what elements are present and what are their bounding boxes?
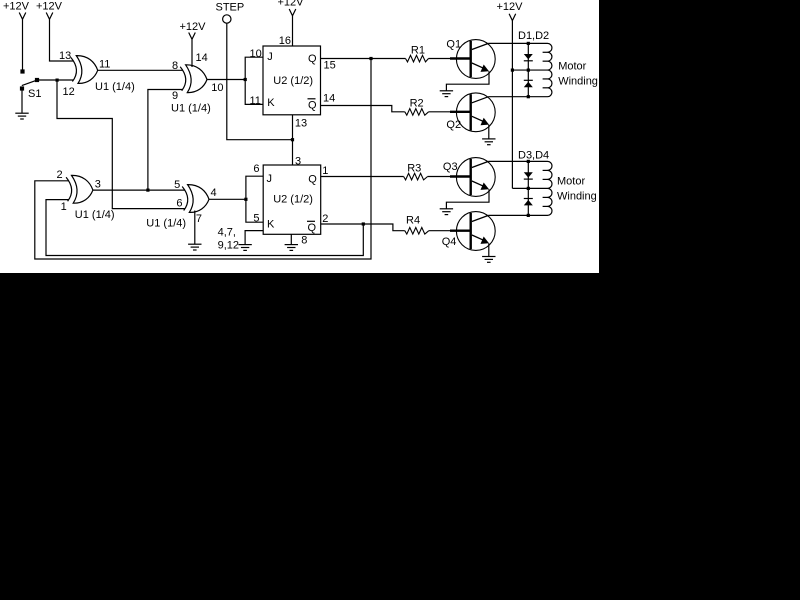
power +12V supply 5 (motor rail) [497,1,524,21]
svg-text:U1 (1/4): U1 (1/4) [146,218,186,230]
wire gate4 pin 7 to ground [194,211,196,245]
svg-text:3: 3 [95,178,101,190]
wire gate2 output to FF1 J/K tie [207,79,245,81]
svg-text:2: 2 [57,169,63,181]
wire gate2 pin9 from below [148,90,183,190]
diode D2 [524,80,533,87]
wire winding 2 center tap [512,187,547,189]
wire FF2 pins 4,7,9,12 stub to ground [245,231,263,245]
wire +12V to FF1 pin 16 [292,16,294,46]
svg-text:3: 3 [295,156,301,168]
wire S1 to ground [21,91,23,113]
svg-text:+12V: +12V [278,0,305,9]
svg-text:Motor: Motor [557,175,585,187]
power +12V supply 3 (gate2 pin14) [180,21,207,39]
svg-text:+12V: +12V [180,21,207,33]
svg-text:10: 10 [250,48,262,60]
wire Q4 emitter to ground [488,243,490,256]
wire winding 1 center tap [512,69,547,71]
node junction top D3 [527,160,530,163]
wire FF2 pin 8 to ground [290,234,292,244]
svg-text:D3,D4: D3,D4 [518,150,549,162]
wire diode chain D1 D2 [527,43,529,96]
ground FF2 pin8 [285,245,298,251]
wire Q1 collector to winding [488,42,547,44]
svg-text:R3: R3 [407,162,421,174]
svg-text:D1,D2: D1,D2 [518,30,549,42]
flip-flop U2 (1/2) first [263,46,321,115]
transistor Q3 [443,158,495,197]
xor gate U1 (1/4) third (pins 2,1 -> 3) [66,175,93,203]
switch S1 [20,69,42,100]
resistor R1 [406,45,429,62]
STEP input terminal [216,2,245,24]
svg-text:Q: Q [308,174,317,186]
ground Q1 emitter [440,91,453,97]
svg-text:Motor: Motor [558,61,586,73]
svg-text:6: 6 [176,197,182,209]
svg-text:R2: R2 [410,98,424,110]
wire S1 to gate1 pin 12 [39,79,73,81]
svg-text:S1: S1 [28,88,41,100]
power +12V supply 2 (gate1 pin13) [36,1,63,20]
wire +12V to gate2 top pin 14 [191,39,193,67]
wire clock chain FF1 pin13 to FF2 pin3 [292,115,294,165]
xor gate U1 (1/4) fourth (pins 5,6 -> 4) [182,185,209,213]
wire gate1 output to gate2 pin 8 [98,69,183,71]
node junction bottom D4 [527,214,530,217]
svg-text:9,12: 9,12 [218,240,239,252]
svg-text:Q4: Q4 [442,236,457,248]
wire FF1 Q pin15 to R1 [321,58,406,60]
svg-text:J: J [267,173,273,185]
svg-text:K: K [267,219,275,231]
xor gate U1 (1/4) first (pins 13,12 -> 11) [71,56,98,84]
wire gate3 output to gate4 pin 5 [93,189,185,191]
svg-text:Q1: Q1 [446,38,461,50]
svg-text:14: 14 [323,93,335,105]
transistor Q4 [442,212,495,251]
wire R2 to Q2 base [429,111,470,113]
svg-text:14: 14 [196,52,208,64]
wire FF1 J-K tie (pins 10,11) [245,57,263,104]
node junction top D1 [527,42,530,45]
svg-text:1: 1 [322,165,328,177]
node junction pin15/feedback [369,57,372,60]
svg-text:4,7,: 4,7, [218,226,236,238]
resistor R4 [405,215,429,235]
svg-text:Q: Q [308,53,317,65]
diode D4 [524,199,533,206]
node junction at S1/pin12 [56,79,59,82]
label Motor Winding 1 [558,61,598,88]
wire R3 to Q3 base [428,176,470,178]
svg-text:U1 (1/4): U1 (1/4) [171,103,211,115]
resistor R2 [405,98,429,116]
wire +12V down and right to gate1 pin 13 [50,19,74,61]
svg-text:11: 11 [99,59,110,71]
node junction bottom D2 [527,95,530,98]
flip-flop U2 (1/2) second [263,165,321,234]
wire Q4 collector to winding [488,214,547,216]
svg-text:10: 10 [211,82,223,94]
svg-text:R4: R4 [406,215,420,227]
inductor motor winding 2 [543,161,552,215]
svg-text:6: 6 [253,163,259,175]
svg-text:+12V: +12V [36,1,63,13]
wire STEP to clock node [227,23,293,140]
svg-text:5: 5 [253,213,259,225]
node junction mid D1-D2 [527,69,530,72]
svg-text:Winding: Winding [557,191,597,203]
resistor R3 [404,162,428,180]
ground Q3 emitter [440,209,453,215]
wire FF1 Qbar pin14 to R2 [321,106,405,112]
xor gate U1 (1/4) second (pins 8,9 -> 10) [180,65,207,93]
wire +12V rail down to winding 2 tap [511,21,513,189]
svg-text:Q2: Q2 [446,119,461,131]
diode D1 [524,54,533,61]
svg-text:Q: Q [308,222,317,234]
svg-text:13: 13 [59,50,71,62]
svg-text:Q: Q [308,99,317,111]
wire feedback B to gate3 pin 1 [46,200,363,256]
svg-text:U2 (1/2): U2 (1/2) [273,194,313,206]
svg-text:R1: R1 [411,45,425,57]
svg-text:2: 2 [322,213,328,225]
wire Q3 collector to winding [488,160,547,162]
svg-text:5: 5 [174,179,180,191]
svg-text:8: 8 [172,60,178,72]
wire gate4 output to FF2 J/K tie [209,198,246,200]
wire Q2 emitter to ground [488,125,490,139]
wire R4 to Q4 base [429,230,470,232]
wire diode chain D3 D4 [527,161,529,215]
node junction rail / tap1 [511,69,514,72]
power +12V supply 1 (S1 branch) [3,1,30,20]
svg-text:J: J [267,51,273,63]
svg-text:15: 15 [324,60,336,72]
power +12V supply 4 (FF1 pin16) [278,0,305,16]
node junction gate2-pin9 line / gate3 out [146,189,149,192]
node junction gate2 out / J-K tie [244,78,247,81]
ground below S1 [15,113,28,119]
label Motor Winding 2 [557,175,597,202]
node junction mid D3-D4 [527,187,530,190]
ground Q4 emitter [482,257,495,263]
svg-text:13: 13 [295,118,307,130]
diode D3 [524,172,533,179]
svg-text:11: 11 [250,95,261,107]
svg-text:Winding: Winding [558,76,598,88]
wire FF2 Q pin1 to R3 [321,176,404,178]
svg-text:U2 (1/2): U2 (1/2) [273,75,313,87]
svg-text:9: 9 [172,90,178,102]
svg-text:4: 4 [211,187,217,199]
node junction STEP/clock [291,138,294,141]
wire +12V to switch S1 [22,19,24,69]
svg-text:STEP: STEP [216,2,245,14]
inductor motor winding 1 [543,43,552,96]
svg-text:K: K [267,97,275,109]
svg-text:16: 16 [279,35,291,47]
ground FF2 unused pins [238,245,251,251]
wire Q3 emitter to ground [446,189,489,208]
svg-text:+12V: +12V [497,1,524,13]
svg-text:U1 (1/4): U1 (1/4) [75,209,115,221]
svg-text:8: 8 [301,234,307,246]
wire Q1 emitter to ground [446,71,489,90]
ground Q2 emitter [482,139,495,145]
node junction pin2/feedback [362,222,365,225]
wire pin12 node down to gate4 pin 6 [57,80,185,209]
wire FF2 J-K tie (pins 6,5) [246,176,263,222]
svg-text:7: 7 [196,213,202,225]
wire R1 to Q1 base [429,58,470,60]
svg-text:+12V: +12V [3,1,30,13]
wire FF2 Qbar pin2 to R4 [321,224,405,231]
svg-text:Q3: Q3 [443,161,458,173]
wire feedback A to gate3 pin 2 [35,59,371,260]
transistor Q1 [446,38,495,78]
node junction gate4 out / FF2 J-K tie [244,198,247,201]
svg-text:12: 12 [63,86,75,98]
transistor Q2 [446,93,495,132]
svg-text:1: 1 [61,201,67,213]
ground gate4 pin7 [188,244,201,250]
wire Q2 collector to winding [488,96,547,98]
svg-text:U1 (1/4): U1 (1/4) [95,81,135,93]
